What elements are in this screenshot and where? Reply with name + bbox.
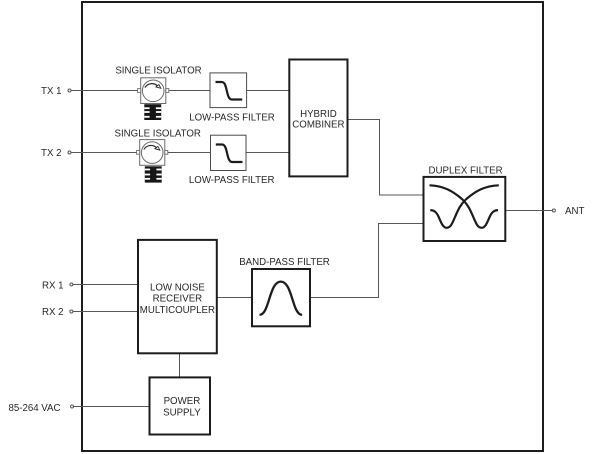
- svg-text:RX 2: RX 2: [42, 307, 64, 318]
- wire RX2 input to multicoupler: [73, 311, 138, 313]
- terminal ANT: [552, 209, 555, 212]
- svg-text:TX 1: TX 1: [41, 86, 61, 97]
- wire hybrid combiner to duplex filter: [348, 120, 424, 196]
- band-pass filter response curve: [260, 282, 303, 315]
- svg-text:SINGLE ISOLATOR: SINGLE ISOLATOR: [115, 66, 201, 77]
- isolator I2 body: [137, 140, 168, 166]
- svg-text:SINGLE ISOLATOR: SINGLE ISOLATOR: [115, 128, 201, 139]
- low-pass filter FL1 response curve: [216, 82, 243, 100]
- svg-text:DUPLEX FILTER: DUPLEX FILTER: [429, 166, 503, 177]
- wire RX1 input to multicoupler: [73, 284, 138, 286]
- isolator I1 body: [138, 78, 169, 104]
- svg-text:TX 2: TX 2: [41, 148, 61, 159]
- duplex filter response curve right-to-left: [430, 185, 499, 228]
- outer enclosure box: [82, 2, 543, 451]
- svg-text:LOW-PASS FILTER: LOW-PASS FILTER: [189, 112, 275, 123]
- svg-text:RECEIVER: RECEIVER: [153, 294, 203, 305]
- duplex filter response curve left-to-right: [430, 185, 499, 228]
- low-pass filter FL2 response curve: [216, 145, 243, 163]
- svg-text:ANT: ANT: [565, 206, 584, 217]
- svg-text:SUPPLY: SUPPLY: [163, 407, 201, 418]
- svg-text:BAND-PASS FILTER: BAND-PASS FILTER: [239, 257, 330, 268]
- low-pass filter FL1 box: [210, 73, 247, 108]
- wire isolator I1 to low-pass filter FL1: [169, 90, 210, 92]
- band-pass filter box: [252, 269, 310, 326]
- svg-text:LOW NOISE: LOW NOISE: [150, 282, 205, 293]
- wire low-pass filter FL2 to hybrid combiner: [246, 152, 289, 154]
- svg-text:MULTICOUPLER: MULTICOUPLER: [140, 305, 215, 316]
- wire duplex filter to ANT terminal: [505, 210, 552, 212]
- low-pass filter FL2 box: [211, 135, 247, 170]
- terminal TX1: [68, 89, 71, 92]
- wire multicoupler to band-pass filter: [217, 297, 252, 299]
- svg-text:RX 1: RX 1: [42, 281, 64, 292]
- wire multicoupler to power supply: [179, 353, 181, 377]
- wire low-pass filter FL1 to hybrid combiner: [247, 90, 290, 92]
- power supply box: [150, 377, 211, 434]
- wire band-pass filter to duplex filter: [310, 224, 424, 298]
- terminal TX2: [68, 151, 71, 154]
- wire 85-264 VAC input to power supply: [74, 406, 150, 408]
- wire TX2 input to isolator I2: [71, 152, 137, 154]
- terminal 85-264 VAC: [71, 405, 74, 408]
- wire isolator I2 to low-pass filter FL2: [168, 152, 211, 154]
- isolator I2 heatsink: [145, 166, 162, 182]
- isolator I1 heatsink: [144, 104, 161, 120]
- svg-text:POWER: POWER: [164, 396, 201, 407]
- svg-text:LOW-PASS FILTER: LOW-PASS FILTER: [189, 175, 275, 186]
- svg-text:COMBINER: COMBINER: [292, 119, 344, 130]
- svg-text:85-264 VAC: 85-264 VAC: [8, 403, 60, 414]
- terminal RX2: [70, 310, 73, 313]
- duplex filter box: [424, 177, 506, 241]
- low noise receiver multicoupler box: [138, 240, 217, 353]
- wire TX1 input to isolator I1: [71, 90, 138, 92]
- hybrid combiner box: [289, 60, 347, 177]
- terminal RX1: [70, 283, 73, 286]
